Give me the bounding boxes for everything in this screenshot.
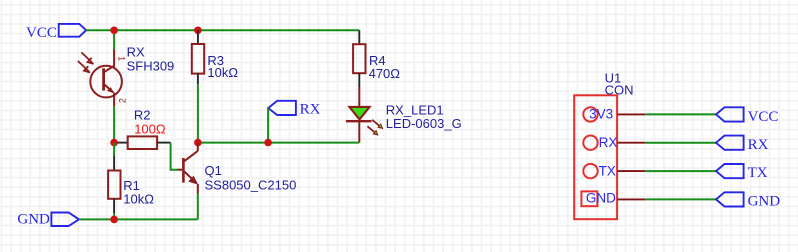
junction GND / R1	[110, 216, 118, 224]
svg-text:TX: TX	[599, 163, 616, 178]
phototransistor RX (SFH309)	[90, 50, 122, 107]
svg-text:RX: RX	[127, 44, 145, 59]
svg-text:VCC: VCC	[26, 25, 57, 41]
net flag VCC (top left)	[59, 24, 86, 37]
light arrow 2 into phototransistor	[78, 61, 90, 73]
LED emission arrow 2	[367, 126, 378, 135]
pin 1 socket circle	[583, 107, 597, 121]
port flag RX (right)	[716, 136, 744, 150]
svg-text:RX_LED1: RX_LED1	[386, 102, 444, 117]
net flag GND (bottom left)	[51, 213, 79, 227]
wire VCC rail top	[86, 29, 359, 31]
svg-text:SS8050_C2150: SS8050_C2150	[205, 177, 297, 192]
svg-text:GND: GND	[586, 191, 616, 206]
wire R2 to Q1 base	[171, 143, 178, 170]
connector U1 (CON) body	[574, 95, 617, 219]
svg-text:2: 2	[118, 98, 128, 103]
transistor Q1 (SS8050)	[177, 143, 198, 194]
svg-text:GND: GND	[17, 211, 50, 227]
svg-text:GND: GND	[748, 193, 781, 209]
svg-text:VCC: VCC	[748, 109, 779, 125]
pin 1 lead	[618, 113, 646, 115]
svg-text:10kΩ: 10kΩ	[207, 65, 238, 80]
pin 4 lead	[618, 198, 646, 200]
svg-text:CON: CON	[605, 82, 634, 97]
resistor R2	[114, 136, 171, 149]
wire GND rail	[79, 218, 198, 220]
resistor R3	[192, 30, 204, 84]
svg-text:3V3: 3V3	[589, 107, 613, 122]
wire R3 to collector junction	[197, 84, 199, 142]
pin 3 socket circle	[583, 164, 597, 178]
junction VCC / phototransistor	[110, 27, 118, 35]
svg-text:10kΩ: 10kΩ	[123, 191, 154, 206]
svg-text:TX: TX	[748, 165, 768, 181]
LED RX_LED1 anode pin	[358, 87, 360, 107]
svg-text:1: 1	[117, 56, 127, 61]
junction VCC / R3	[194, 27, 202, 35]
svg-text:RX: RX	[748, 137, 769, 153]
wire Q1 emitter to GND rail	[197, 194, 199, 220]
svg-text:RX: RX	[599, 135, 618, 150]
wire pin3 to TX port	[645, 170, 716, 172]
junction collector / rail	[194, 139, 202, 147]
LED RX_LED1 (LED-0603_G)	[346, 107, 372, 143]
svg-text:470Ω: 470Ω	[369, 66, 401, 81]
junction RX flag / rail	[264, 139, 272, 147]
wire pin4 to GND port	[645, 198, 716, 200]
wire RX flag drop	[267, 108, 269, 143]
wire pin2 to RX port	[645, 142, 716, 144]
port flag VCC (right)	[716, 107, 744, 121]
light arrow 1 into phototransistor	[81, 52, 93, 64]
pin 3 lead	[618, 170, 646, 172]
wire RX rail (collector to LED)	[198, 142, 359, 144]
wire VCC to phototransistor	[113, 30, 115, 49]
resistor R1	[108, 143, 120, 220]
net flag RX (middle)	[268, 101, 296, 115]
LED emission arrow 1	[372, 120, 383, 129]
svg-text:RX: RX	[300, 102, 321, 118]
svg-text:SFH309: SFH309	[127, 58, 175, 73]
pin 4 socket square	[581, 191, 597, 206]
junction R2 / phototransistor / R1	[110, 139, 118, 147]
port flag TX (right)	[716, 164, 744, 178]
pin 2 lead	[618, 142, 646, 144]
svg-text:LED-0603_G: LED-0603_G	[386, 116, 462, 131]
resistor R4	[353, 30, 365, 87]
svg-text:100Ω: 100Ω	[134, 121, 166, 136]
wire phototransistor to R2 junction	[113, 106, 115, 142]
wire pin1 to VCC port	[645, 113, 716, 115]
svg-text:Q1: Q1	[205, 163, 222, 178]
port flag GND (right)	[716, 192, 744, 206]
pin 2 socket circle	[583, 136, 597, 150]
